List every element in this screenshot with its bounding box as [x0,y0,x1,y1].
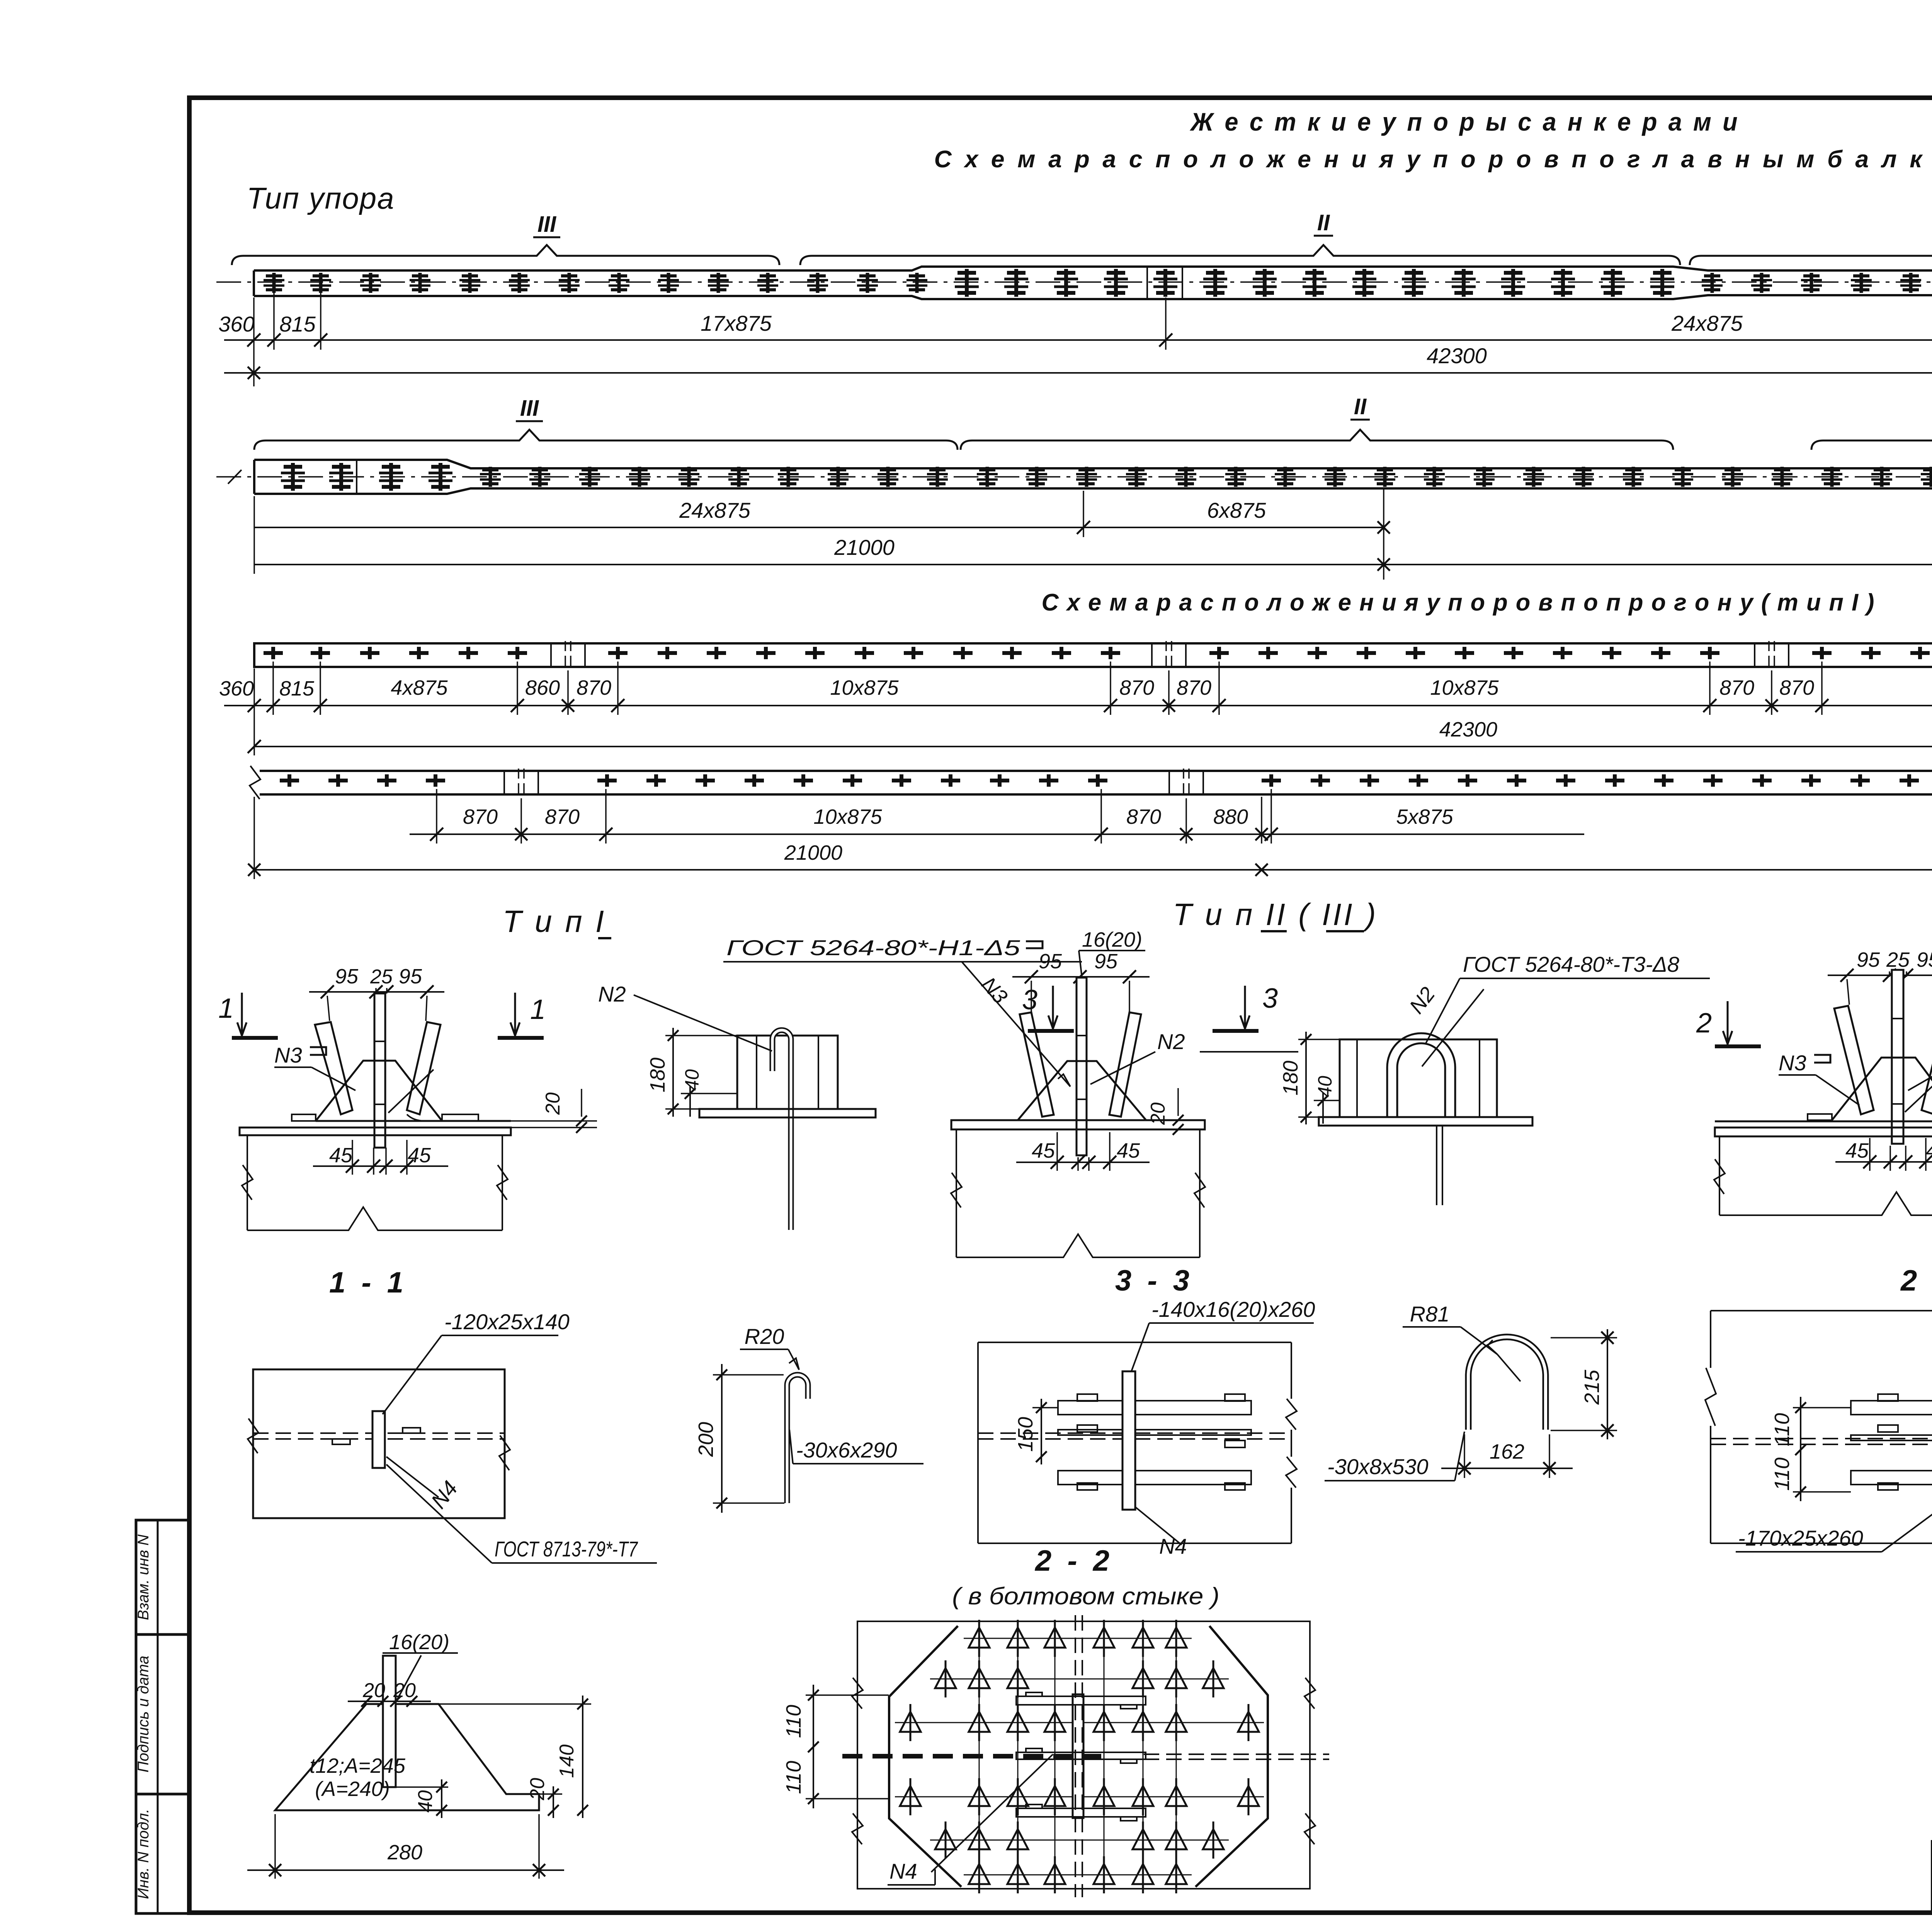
beam flange of Тип I [240,1128,511,1135]
leader crossing legs of Тип IV [1905,1068,1932,1112]
dim 162 of R81 hook [1464,1434,1465,1478]
base tabs of Тип IV [1808,1114,1832,1120]
svg-text:N4: N4 [889,1859,917,1883]
detail R81 hook [1468,1337,1546,1430]
row 1 brackets [232,245,779,265]
dim 45 45 of Тип I [313,1165,448,1167]
right leg of Тип I [407,1022,440,1114]
svg-text:-120x25x140: -120x25x140 [444,1310,570,1334]
svg-text:N3: N3 [274,1043,302,1067]
row 1 anchor symbols [264,273,284,293]
dim 140 left trapezoid [439,1703,591,1705]
detail U-anchor front view (Тип II-III) [1340,1039,1497,1117]
dim 45 45 of Тип IV [1835,1161,1932,1163]
svg-text:N2: N2 [598,982,626,1006]
dims 180 40 of U-anchor [1305,1032,1307,1124]
dim 20 step left trapezoid [506,1793,562,1795]
row 2 centre line [216,476,1932,478]
svg-text:45: 45 [408,1144,431,1167]
svg-text:95: 95 [399,965,422,988]
svg-text:( в болтовом стыке ): ( в болтовом стыке ) [952,1583,1219,1610]
dims 180 40 of pocket [672,1028,674,1117]
main beam row 2 outline [254,460,1932,494]
dim 95 95 of Тип II-III [1012,976,1150,978]
svg-text:Ж е с т к и е у п о р ы с: Ж е с т к и е у п о р ы с а н к е р а м … [1190,107,1740,136]
svg-text:24x875: 24x875 [1671,311,1743,335]
svg-text:25: 25 [1886,948,1910,971]
svg-text:(A=240): (A=240) [315,1777,390,1801]
svg-text:ГОСТ 5264-80*-Н1-Δ5: ГОСТ 5264-80*-Н1-Δ5 [726,935,1020,960]
heavy dashed centre line [842,1754,1101,1759]
row 2 dimension line B [254,564,1932,565]
svg-text:110: 110 [782,1761,805,1794]
svg-text:R20: R20 [745,1324,784,1349]
svg-text:N3: N3 [1779,1051,1806,1075]
dim 40 left trapezoid [396,1786,448,1788]
svg-text:II: II [1354,394,1367,419]
svg-text:870: 870 [1119,676,1154,699]
row 2 brackets [254,430,957,450]
svg-text:-140x16(20)x260: -140x16(20)x260 [1151,1297,1315,1321]
svg-text:870: 870 [545,805,580,828]
row 3 dimension line B 42300 [254,746,1932,747]
svg-text:t12;A=245: t12;A=245 [310,1754,406,1777]
beam web body of Тип IV [1719,1136,1720,1215]
dim 20 of Тип I plate [511,1120,597,1122]
svg-text:200: 200 [694,1422,718,1457]
svg-text:215: 215 [1580,1369,1604,1405]
svg-text:180: 180 [1279,1061,1302,1095]
right leg of Тип II-III [1109,1012,1141,1117]
dim 280 left trapezoid [274,1814,276,1879]
dim 45 45 of Тип II-III [1016,1162,1150,1163]
dim 95 25 95 of Тип IV [1828,975,1932,976]
svg-text:20: 20 [526,1778,549,1801]
splice plates of 3-3 [1058,1401,1251,1415]
svg-text:870: 870 [1779,676,1814,699]
dims 110 110 bolted joint [813,1685,814,1808]
svg-text:Тип упора: Тип упора [247,181,395,215]
section 2-2 view [1711,1311,1932,1543]
dim 150 of 3-3 [1041,1399,1042,1464]
dim 215 of R81 hook [1551,1337,1617,1338]
row 1 dimension line B 42300 [224,372,1932,374]
beam web body of Тип II-III [956,1129,957,1257]
beam web body of Тип I [247,1135,248,1230]
svg-text:16(20): 16(20) [1082,928,1142,951]
svg-text:280: 280 [387,1841,422,1864]
svg-text:-170x25x260: -170x25x260 [1738,1526,1863,1550]
svg-text:Инв. N подл.: Инв. N подл. [135,1809,152,1899]
bolt symbols grid [964,1638,1192,1639]
svg-text:880: 880 [1213,805,1248,828]
svg-text:870: 870 [577,676,611,699]
svg-text:20: 20 [1147,1102,1169,1125]
gusset of Тип I [316,1061,442,1121]
dim 20 of Тип II-III plate [1194,1120,1205,1121]
row 3 dimension line A [224,705,1932,706]
svg-text:40: 40 [1314,1076,1336,1097]
row 2 dimension line A [254,527,1384,528]
svg-text:II: II [1317,210,1330,235]
svg-text:Т и п I: Т и п I [503,904,606,939]
svg-text:870: 870 [1126,805,1161,828]
svg-text:180: 180 [646,1058,669,1092]
svg-text:1: 1 [530,994,546,1025]
svg-text:860: 860 [525,676,560,699]
svg-text:21000: 21000 [784,841,842,864]
left leg of Тип IV [1834,1006,1874,1114]
detail N2 pocket side view [737,1036,838,1109]
centre splice plate [1073,1694,1083,1818]
left leg of Тип I [315,1022,352,1114]
svg-text:20: 20 [542,1092,564,1115]
svg-text:20: 20 [393,1679,416,1702]
svg-text:95: 95 [1917,948,1932,971]
svg-text:150: 150 [1014,1417,1037,1452]
gusset of Тип IV [1832,1058,1932,1120]
svg-text:95: 95 [335,965,359,988]
dim 200 of R20 hook [713,1374,784,1376]
gusset of Тип II-III [1018,1061,1146,1120]
svg-text:45: 45 [1845,1139,1869,1162]
row 1 dimension line A [224,339,1932,341]
svg-text:110: 110 [782,1705,805,1738]
dims 20 20 left [348,1701,431,1702]
svg-text:10x875: 10x875 [813,805,882,828]
row 1 centre line [216,281,1932,283]
svg-text:1: 1 [218,993,234,1024]
svg-text:6x875: 6x875 [1207,498,1266,522]
svg-text:95: 95 [1857,948,1880,971]
svg-text:45: 45 [1926,1139,1932,1162]
left margin stamp boxes [136,1520,189,1634]
svg-text:45: 45 [1032,1139,1055,1162]
svg-text:С х е м а р а с п о л о ж е: С х е м а р а с п о л о ж е н и я у п о … [934,146,1932,173]
dims 110 110 of 2-2 [1800,1397,1801,1501]
svg-text:162: 162 [1490,1440,1524,1463]
svg-text:3: 3 [1262,983,1278,1014]
svg-text:Подпись и дата: Подпись и дата [135,1656,152,1773]
svg-text:N2: N2 [1157,1029,1185,1054]
svg-text:25: 25 [370,966,393,988]
svg-text:ГОСТ 8713-79*-Т7: ГОСТ 8713-79*-Т7 [495,1537,638,1561]
row 4 dimension line A [410,833,1584,835]
svg-text:III: III [520,396,539,421]
svg-text:С х е м а р а с п о л о ж е: С х е м а р а с п о л о ж е н и я у п о … [1042,589,1875,616]
svg-text:140: 140 [556,1745,578,1778]
anchor stem plate of Тип I [374,993,385,1148]
svg-text:-30x6x290: -30x6x290 [796,1438,897,1462]
section 1-1 plan view [253,1369,505,1518]
left leg of Тип II-III [1020,1012,1054,1117]
splice strips [1016,1696,1146,1705]
splice plates of 2-2 [1851,1401,1932,1415]
svg-text:1 - 1: 1 - 1 [329,1266,407,1299]
plate of Тип II-III [951,1120,1205,1129]
row 4 plus symbols [280,774,299,787]
row 3 plus symbols [264,647,283,659]
svg-text:17x875: 17x875 [701,311,772,335]
section through anchor leg (left trapezoid) [275,1704,539,1810]
svg-text:42300: 42300 [1427,344,1487,368]
svg-text:5x875: 5x875 [1396,805,1453,828]
bolted joint plan view [857,1621,1310,1889]
svg-text:110: 110 [1770,1458,1794,1491]
svg-text:10x875: 10x875 [1430,676,1499,699]
svg-text:360: 360 [218,312,254,336]
svg-text:Взам. инв N: Взам. инв N [135,1534,152,1620]
svg-text:2 - 2: 2 - 2 [1034,1544,1113,1577]
svg-text:24x875: 24x875 [679,498,751,522]
main beam row 1 outline [254,267,1932,299]
svg-text:42300: 42300 [1439,718,1497,741]
right leg of Тип IV [1922,1006,1932,1114]
svg-text:Т и п II ( III ): Т и п II ( III ) [1173,897,1378,932]
thin plate of Тип IV [1715,1121,1932,1122]
svg-text:ГОСТ 5264-80*-Т3-Δ8: ГОСТ 5264-80*-Т3-Δ8 [1463,952,1679,976]
leader crossing right leg [388,1070,434,1113]
svg-text:40: 40 [681,1069,703,1091]
svg-text:4x875: 4x875 [391,676,448,699]
svg-text:40: 40 [414,1790,437,1813]
svg-text:-30x8x530: -30x8x530 [1327,1454,1429,1479]
svg-text:815: 815 [279,677,315,700]
splice plate octagon [889,1626,1268,1887]
section 3-3 view [978,1342,1291,1543]
svg-text:870: 870 [1177,676,1211,699]
svg-text:3 - 3: 3 - 3 [1115,1264,1193,1297]
svg-text:20: 20 [362,1679,385,1702]
svg-text:16(20): 16(20) [389,1631,449,1654]
anchor stem plate of Тип II-III [1077,978,1087,1155]
svg-text:360: 360 [219,677,254,700]
svg-text:95: 95 [1094,950,1118,973]
svg-text:2: 2 [1696,1008,1712,1039]
flange plate of Тип IV [1715,1128,1932,1136]
anchor stem plate of Тип IV [1892,970,1903,1144]
base tabs of Тип I [292,1114,316,1121]
stringer row 4 outline [260,771,1932,794]
svg-text:21000: 21000 [834,535,895,560]
row 4 dimension line B 21000 [254,869,1932,871]
svg-text:2 - 2: 2 - 2 [1900,1264,1932,1297]
thin plate 20 of Тип I [316,1120,511,1122]
svg-text:815: 815 [279,312,316,336]
svg-text:45: 45 [329,1144,353,1167]
svg-text:870: 870 [1719,676,1754,699]
detail R20 hook [787,1375,808,1503]
dim 95 25 95 of Тип I [309,991,444,993]
svg-text:3: 3 [1022,985,1037,1015]
centre vertical dashed lines [1075,1615,1076,1897]
row 2 anchor symbols [281,463,305,491]
svg-text:870: 870 [463,805,498,828]
svg-text:III: III [537,212,557,237]
svg-text:110: 110 [1770,1413,1794,1446]
svg-text:10x875: 10x875 [830,676,899,699]
svg-text:45: 45 [1117,1139,1140,1162]
stringer row 3 outline [254,643,1932,667]
svg-text:R81: R81 [1410,1302,1450,1326]
